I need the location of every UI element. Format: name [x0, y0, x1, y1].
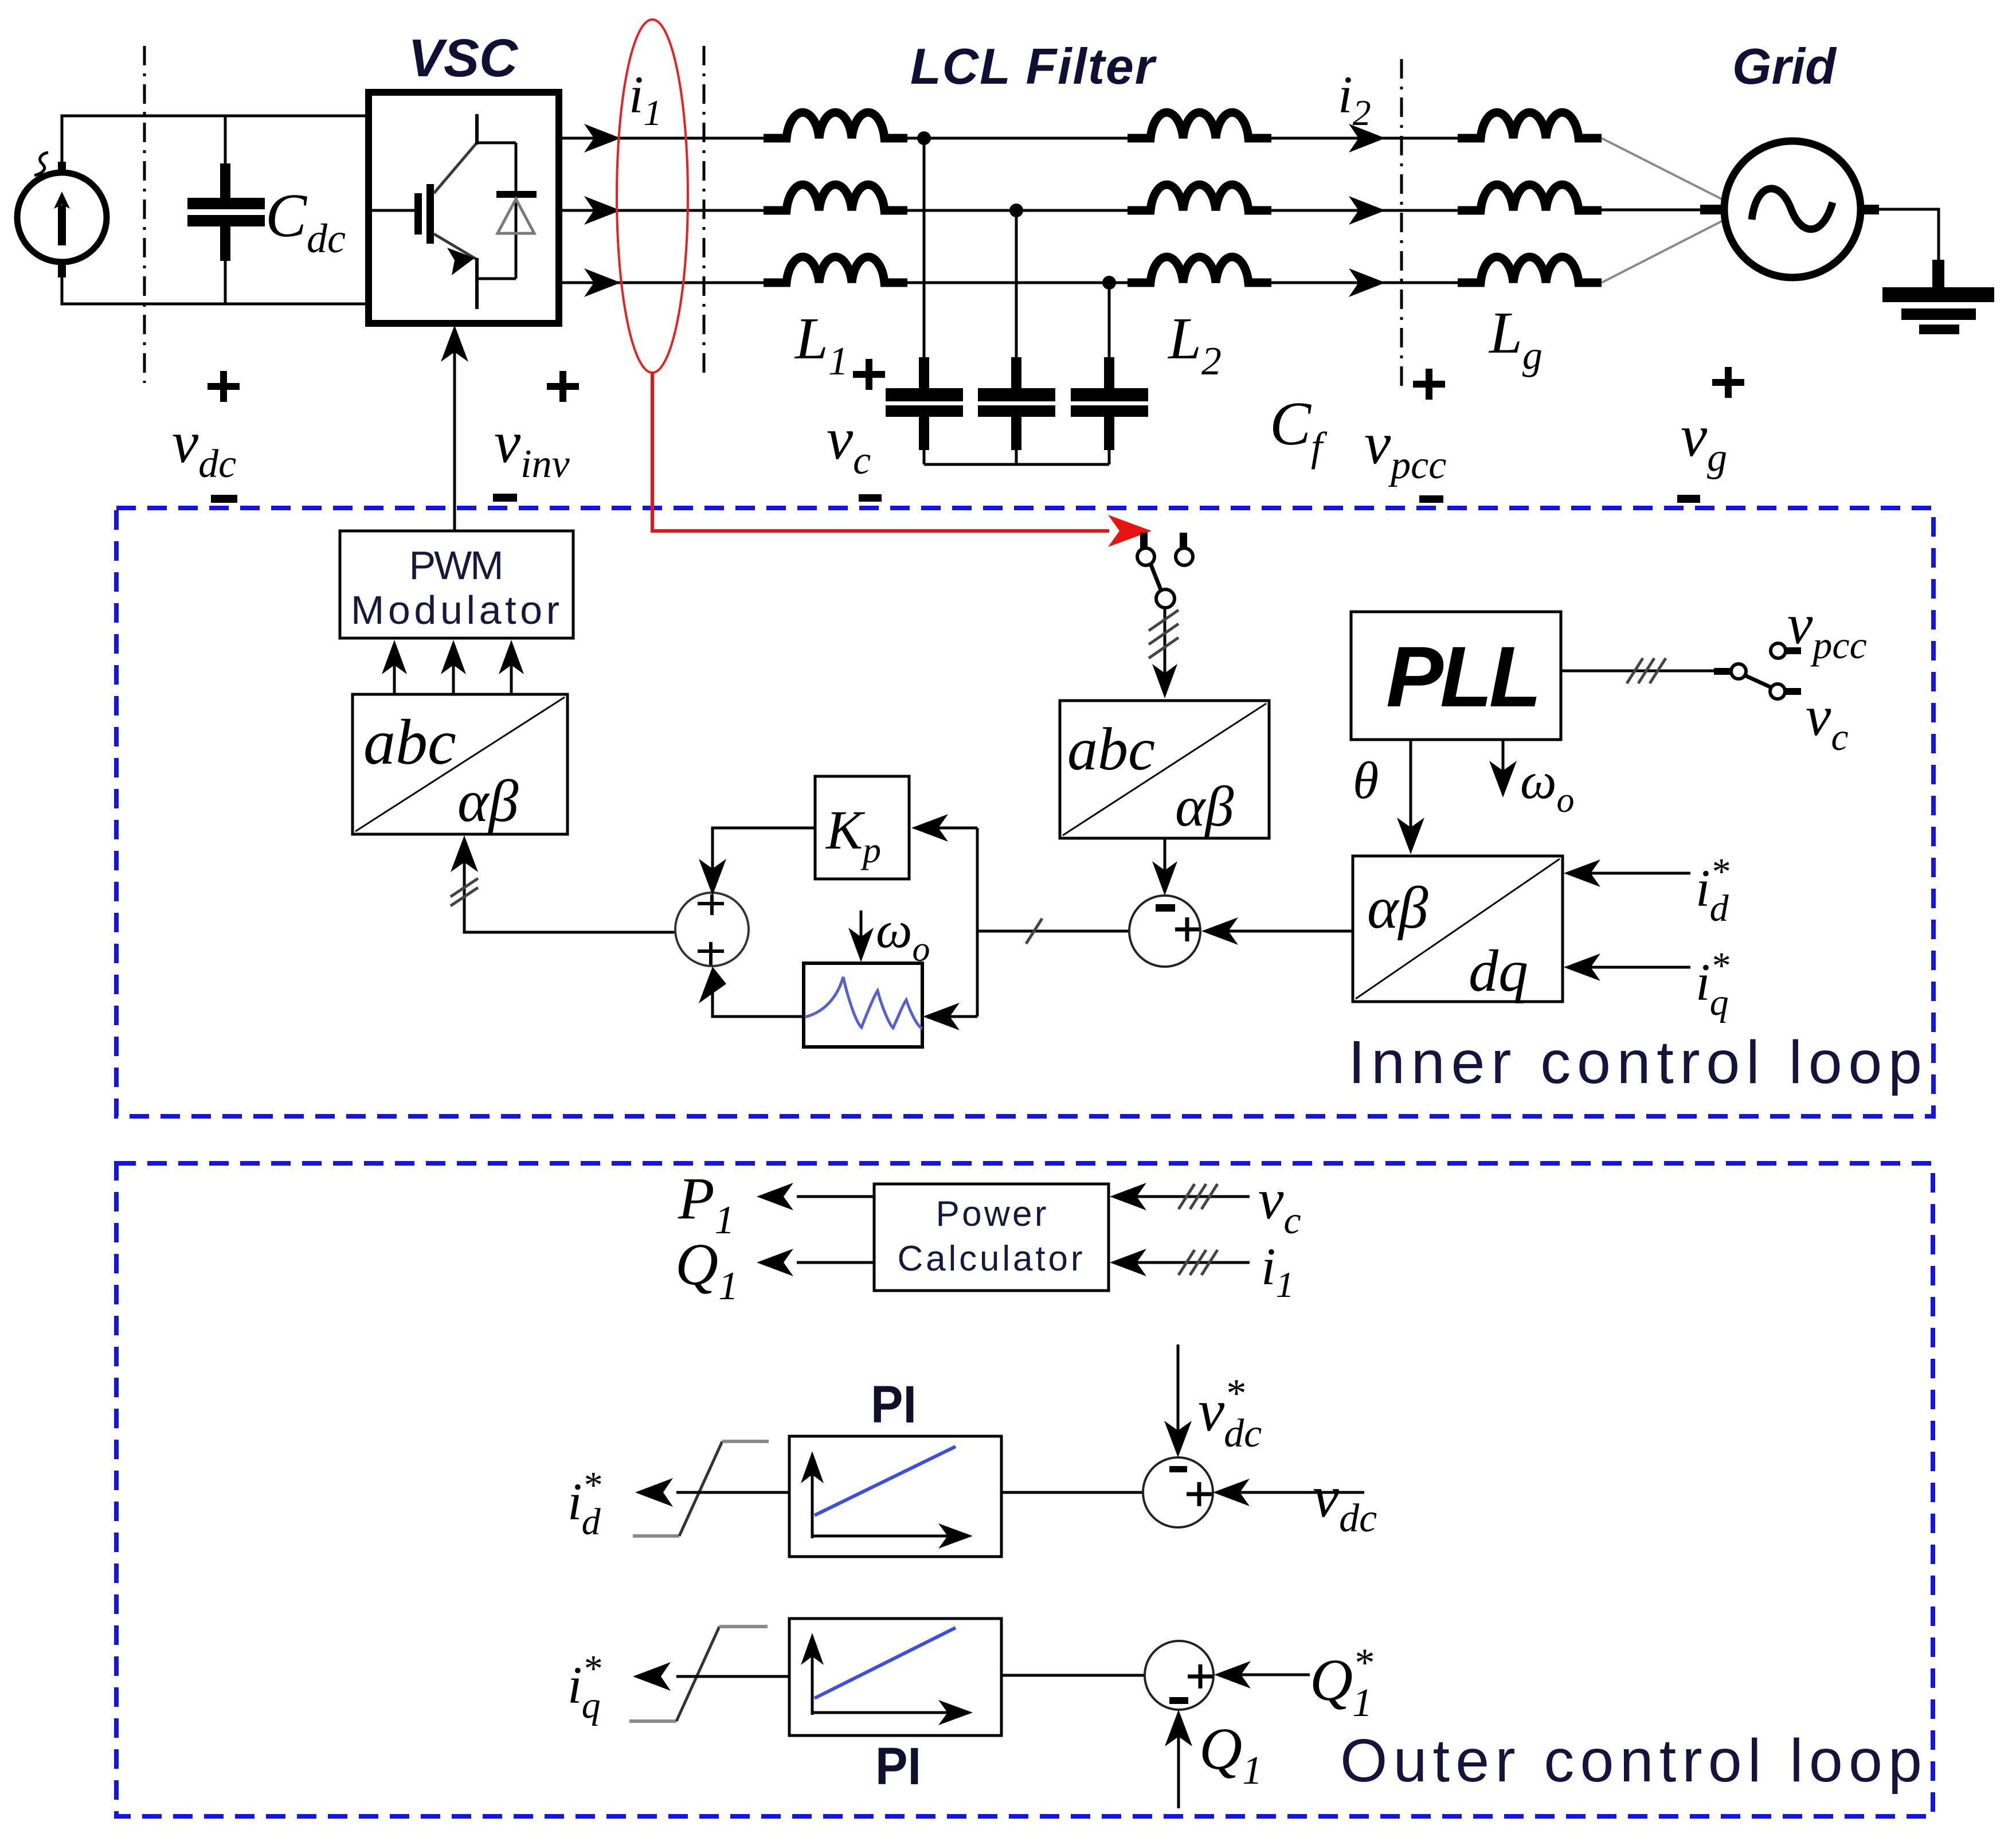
junction node phase c — [1102, 276, 1116, 290]
arrow phase c i1 — [584, 268, 621, 297]
svg-text:αβ: αβ — [457, 768, 519, 834]
wire phase c VSC to L1 — [559, 282, 764, 284]
switch i1 select — [1137, 533, 1193, 608]
wire grid to ground — [1878, 209, 1939, 261]
wire Q1 feedback — [1165, 1710, 1192, 1808]
arrow phase b i1 — [584, 196, 621, 225]
capacitor Cdc — [187, 116, 265, 304]
block Power Calculator — [874, 1184, 1109, 1291]
svg-text:αβ: αβ — [1175, 775, 1234, 838]
wire phase b L2 to Lg — [1271, 209, 1458, 212]
svg-text:PI: PI — [871, 1375, 917, 1434]
wire i1 into power calculator — [1110, 1249, 1250, 1276]
inductor L2 phase a — [1128, 112, 1271, 138]
wire vdc measured — [1213, 1479, 1364, 1506]
wire phase b L1 to L2 — [907, 209, 1128, 212]
converter VSC box — [369, 92, 559, 323]
inductor L1 phase b — [764, 185, 907, 210]
svg-text:αβ: αβ — [1367, 875, 1428, 941]
capacitor Cf phase b — [978, 210, 1055, 464]
block Kp — [815, 776, 909, 879]
arrow phase a i1 — [584, 124, 621, 153]
AC source grid vg — [1700, 141, 1879, 277]
svg-text:PWM: PWM — [409, 543, 504, 588]
label vg minus — [1677, 495, 1700, 503]
wire theta PLL to dq block — [1397, 740, 1424, 854]
svg-text:dq: dq — [1469, 938, 1528, 1004]
wire abc block to sum2 — [1152, 838, 1177, 896]
wire Q1* reference — [1214, 1661, 1310, 1688]
wire iq* output — [633, 1662, 789, 1691]
label vpcc minus — [1419, 495, 1443, 503]
arrow VSC gate drive — [441, 325, 468, 531]
block abc to alphabeta (right) — [1060, 701, 1269, 838]
label vpcc plus — [1413, 369, 1445, 400]
wire Kp input — [911, 814, 977, 842]
inductor Lg phase b — [1458, 185, 1602, 210]
svg-text:VSC: VSC — [408, 28, 519, 88]
transistor IGBT inside VSC — [372, 114, 477, 309]
arrow c into PWM — [499, 640, 524, 694]
wire vdc* reference — [1164, 1344, 1192, 1457]
ground — [1882, 260, 1994, 334]
wire resonant output to sum1 — [699, 967, 804, 1017]
label vdc minus — [211, 495, 237, 503]
arrow a into PWM — [382, 640, 407, 694]
wire PI1 to sum3 — [1001, 1491, 1144, 1494]
svg-text:Inner control loop: Inner control loop — [1348, 1029, 1922, 1096]
measurement ellipse i1 (red) — [617, 19, 688, 373]
label vinv plus — [547, 371, 579, 402]
arrow omega_o PLL output — [1489, 740, 1517, 798]
wire switch to abc block — [1149, 608, 1179, 698]
wire dc bus bottom — [62, 276, 369, 304]
svg-text:abc: abc — [363, 707, 456, 778]
svg-text:Grid: Grid — [1732, 38, 1837, 95]
arrow b into PWM — [441, 640, 466, 694]
arrow phase a i2 — [1349, 124, 1385, 153]
label vinv minus — [493, 494, 517, 502]
svg-text:PLL: PLL — [1386, 628, 1538, 725]
label vc plus — [853, 359, 885, 390]
node boundary dash-dot line left — [143, 46, 146, 383]
block abc to alphabeta (left) — [353, 694, 567, 834]
block PI Q — [789, 1619, 1001, 1736]
inductor L2 phase b — [1128, 185, 1271, 210]
capacitor Cf phase a — [886, 138, 963, 464]
wire dq output to sum2 — [1201, 917, 1353, 945]
block alphabeta to dq — [1353, 856, 1563, 1004]
label PWM Modulator — [351, 543, 559, 632]
summing junction sum1 — [675, 893, 749, 966]
block PI vdc — [789, 1436, 1001, 1557]
svg-text:abc: abc — [1067, 716, 1155, 783]
summing junction sum2 — [1129, 896, 1200, 967]
wire phase b to grid — [1602, 209, 1702, 212]
wire PI2 to sum4 — [1001, 1674, 1146, 1677]
current source Idc — [17, 153, 107, 277]
inductor L1 phase c — [764, 257, 907, 283]
block resonant controller — [804, 963, 922, 1047]
wire phase c to grid (slanted) — [1602, 218, 1727, 283]
svg-text:Q*1: Q*1 — [1310, 1641, 1373, 1725]
summing junction sum3 — [1143, 1457, 1213, 1527]
saturation iq* — [629, 1627, 768, 1721]
svg-text:LCL Filter: LCL Filter — [910, 38, 1157, 95]
wire modulation input — [451, 835, 678, 932]
label vg plus — [1712, 367, 1744, 398]
wire id* output — [635, 1478, 789, 1507]
block PWM Modulator — [340, 531, 573, 638]
junction node phase b — [1009, 204, 1023, 217]
inductor Lg phase a — [1458, 112, 1602, 138]
summing junction sum4 — [1145, 1641, 1213, 1710]
capacitor Cf phase c — [1071, 283, 1148, 464]
wire P1 output — [757, 1183, 874, 1210]
node boundary dash-dot line mid — [703, 46, 706, 378]
wire capacitor common bus — [924, 463, 1109, 466]
wire phase a VSC to L1 — [559, 137, 764, 140]
wire Kp output to sum1 — [699, 828, 815, 896]
inductor L1 phase a — [764, 112, 907, 138]
wire vc into power calculator — [1110, 1183, 1250, 1210]
wire phase a to grid (slanted) — [1602, 138, 1727, 202]
svg-text:θ: θ — [1353, 751, 1379, 810]
wire dc bus top — [62, 116, 369, 162]
arrow omega_o into resonant — [848, 910, 874, 962]
label vc minus — [859, 494, 882, 502]
switch vpcc/vc select — [1714, 643, 1801, 699]
wire phase a L2 to Lg — [1271, 137, 1458, 140]
wire phase b VSC to L1 — [559, 209, 764, 212]
svg-text:Power: Power — [936, 1194, 1047, 1234]
node boundary dash-dot line right — [1400, 59, 1403, 388]
outer control loop box — [116, 1163, 1933, 1816]
wire iq* reference — [1564, 953, 1690, 981]
saturation id* — [633, 1441, 769, 1536]
diode inside VSC — [477, 143, 537, 279]
wire current error bus — [977, 828, 1129, 1017]
wire id* reference — [1564, 859, 1690, 887]
wire resonant input — [923, 1003, 977, 1030]
inner control loop box — [116, 508, 1933, 1116]
svg-text:Modulator: Modulator — [351, 588, 559, 632]
svg-text:PI: PI — [875, 1737, 921, 1796]
wire i1 feedback (red) — [652, 373, 1109, 531]
arrow phase c i2 — [1349, 268, 1385, 297]
wire phase a L1 to L2 — [907, 137, 1128, 140]
arrow i1 feedback (red) — [1108, 515, 1152, 547]
inductor L2 phase c — [1128, 257, 1271, 283]
junction node phase a — [917, 131, 931, 145]
block PLL — [1351, 612, 1561, 740]
wire phase c L1 to L2 — [907, 282, 1128, 284]
arrow phase b i2 — [1349, 196, 1385, 225]
wire Q1 output — [757, 1249, 874, 1276]
inductor Lg phase c — [1458, 257, 1602, 283]
wire PLL input from switch — [1561, 658, 1716, 683]
wire phase c L2 to Lg — [1271, 282, 1458, 284]
label vdc plus — [208, 371, 240, 402]
